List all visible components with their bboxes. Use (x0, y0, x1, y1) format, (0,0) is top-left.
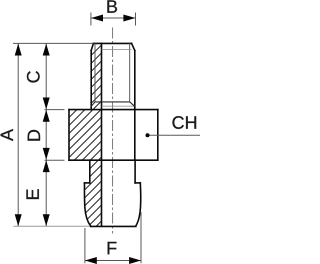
right step (135, 182, 140, 184)
thread runout bottom-left chamfer (91, 102, 95, 106)
hex top edge (69, 109, 158, 111)
part outline (thick) (69, 43, 158, 226)
thread top edge (93, 42, 131, 44)
dim D top arrow (43, 110, 50, 122)
bore wall line (101, 43, 103, 226)
hex top extension tick (45, 109, 65, 111)
thread runout line (91, 102, 135, 106)
dim B right arrow (123, 15, 135, 22)
dim B left arrow (91, 15, 103, 22)
neck right edge (134, 160, 136, 183)
thread root thin lines (95, 43, 130, 102)
bottom edge (91, 225, 136, 227)
dim F left extension line (84, 228, 86, 263)
label C (27, 71, 40, 82)
thread crest right (134, 51, 136, 110)
label A (1, 129, 13, 141)
neck left edge (89, 160, 91, 183)
dim B right extension tick (135, 13, 137, 26)
hex bottom edge (69, 159, 158, 161)
hex bottom extension tick (45, 159, 65, 161)
dimension lines (13, 13, 200, 264)
thread top-left chamfer (91, 43, 93, 50)
left step (85, 182, 90, 184)
dim F left arrow (85, 257, 97, 264)
label D (28, 130, 40, 141)
hex facet line (134, 110, 136, 161)
hatching of sectioned wall (55, 7, 140, 264)
dim A bottom arrow (15, 214, 22, 226)
thread crest left (90, 51, 92, 110)
dim E bottom arrow (43, 214, 50, 226)
olive left edge (84, 183, 90, 226)
dim E top arrow (43, 160, 50, 172)
arrowheads (15, 15, 150, 264)
thread root right (129, 43, 131, 102)
label E (26, 189, 38, 199)
dim C top arrow (43, 44, 50, 56)
thread top-right chamfer (132, 43, 135, 50)
dim F line (85, 260, 141, 262)
thread root left (94, 43, 96, 102)
dim A top arrow (15, 44, 22, 56)
dim B line (91, 17, 135, 19)
hex left edge (68, 110, 70, 161)
thread runout bottom-right chamfer (130, 102, 135, 106)
runout faint line (bottom of thread) (102, 105, 135, 107)
dim F right arrow (129, 257, 141, 264)
label B (107, 0, 117, 12)
chamfer bottom faint line (top) (102, 49, 132, 51)
hex right edge (157, 110, 159, 161)
olive right edge (136, 183, 141, 226)
dim C bottom arrow (43, 98, 50, 110)
leader line CH (148, 134, 201, 136)
label CH (172, 116, 196, 129)
dim F right extension line (140, 212, 142, 263)
centerline (vertical axis) (112, 28, 114, 234)
label F (108, 242, 117, 254)
bottom extension line (gray) (14, 225, 91, 227)
top extension line (13, 42, 93, 44)
dim D bottom arrow (43, 148, 50, 160)
leader dot (146, 133, 150, 137)
dim A line (17, 43, 19, 226)
dim B left extension tick (90, 13, 92, 26)
dim C D E line (45, 43, 47, 226)
